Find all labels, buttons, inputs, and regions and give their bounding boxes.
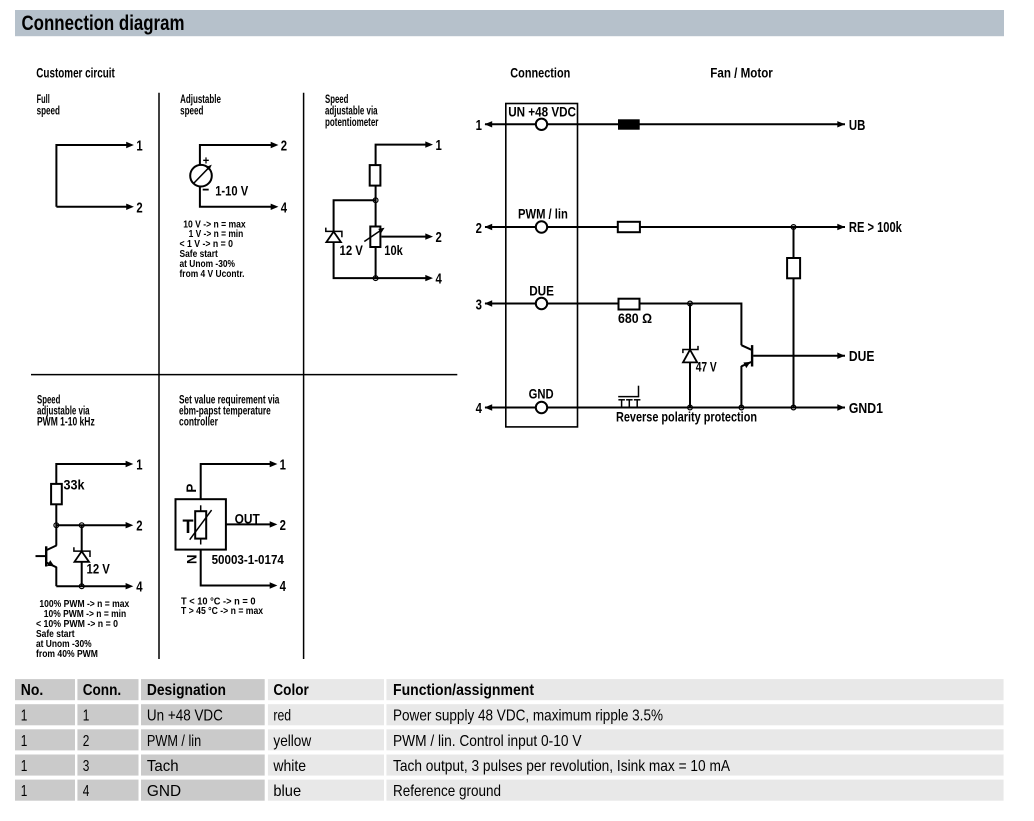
svg-text:red: red bbox=[273, 708, 291, 725]
svg-text:3: 3 bbox=[476, 297, 482, 314]
svg-text:12 V: 12 V bbox=[87, 561, 111, 577]
wire full speed pin2 bbox=[56, 206, 127, 208]
minus sign bbox=[203, 189, 209, 191]
junction ring top bbox=[373, 198, 378, 203]
resistor RE vertical bbox=[787, 258, 800, 278]
resistor 33k bbox=[51, 484, 62, 504]
svg-text:4: 4 bbox=[436, 271, 443, 288]
divider line vertical 2 bbox=[303, 93, 305, 659]
mosfet gate bar bbox=[618, 396, 639, 398]
wire pin4 GND bbox=[485, 407, 845, 409]
junction ring zener top bbox=[688, 301, 693, 306]
potentiometer body bbox=[370, 227, 380, 248]
svg-text:speed: speed bbox=[37, 106, 60, 118]
svg-text:4: 4 bbox=[476, 400, 483, 417]
mosfet stem 1 bbox=[621, 400, 623, 408]
arrowhead GND1 bbox=[837, 404, 845, 410]
wire OUT to pin2 bbox=[226, 523, 271, 525]
svg-text:50003-1-0174: 50003-1-0174 bbox=[212, 552, 285, 567]
zener diode 12V triangle bbox=[326, 232, 341, 243]
junction ring right bbox=[79, 523, 84, 528]
mosfet pad 3 bbox=[634, 399, 641, 401]
wire 33k to junction bbox=[55, 504, 57, 545]
table row 3 text bbox=[21, 758, 730, 775]
svg-text:Customer circuit: Customer circuit bbox=[36, 64, 115, 80]
svg-text:1: 1 bbox=[21, 733, 28, 750]
svg-text:Connection: Connection bbox=[510, 64, 570, 80]
arrowhead pin4 bbox=[126, 583, 134, 589]
table row 2 background bbox=[15, 729, 1004, 750]
svg-text:Tach: Tach bbox=[147, 758, 179, 775]
arrowhead pin4 left bbox=[485, 404, 493, 410]
thermistor body bbox=[195, 511, 206, 538]
svg-text:yellow: yellow bbox=[273, 733, 311, 750]
transistor collector diagonal bbox=[47, 545, 57, 550]
arrowhead pin4 bbox=[271, 204, 279, 210]
wire wiper to pin2 bbox=[382, 236, 427, 238]
svg-text:10k: 10k bbox=[384, 242, 403, 258]
junction ring GND emitter bbox=[739, 405, 744, 410]
divider line horizontal bbox=[31, 374, 457, 376]
svg-text:Fan / Motor: Fan / Motor bbox=[710, 64, 773, 80]
svg-text:2: 2 bbox=[476, 220, 482, 237]
svg-text:DUE: DUE bbox=[849, 348, 875, 365]
arrowhead pin2 bbox=[126, 522, 134, 528]
svg-text:Full: Full bbox=[37, 94, 50, 106]
svg-text:33k: 33k bbox=[64, 477, 85, 493]
junction ring GND resistor bbox=[791, 405, 796, 410]
table row 4 background bbox=[15, 780, 1004, 801]
wire source bottom to pin4 bbox=[200, 186, 272, 206]
wire zener 47V vertical top bbox=[689, 304, 691, 350]
mosfet pad 1 bbox=[618, 399, 625, 401]
svg-text:Reverse polarity protection: Reverse polarity protection bbox=[616, 409, 757, 425]
svg-text:PWM / lin. Control input 0-10: PWM / lin. Control input 0-10 V bbox=[393, 733, 582, 750]
junction ring bottom bbox=[373, 276, 378, 281]
arrowhead UB bbox=[837, 121, 845, 127]
wire controller top to pin1 bbox=[201, 464, 271, 499]
svg-text:RE > 100k: RE > 100k bbox=[849, 219, 902, 236]
arrowhead pin2 bbox=[271, 142, 279, 148]
svg-text:blue: blue bbox=[273, 783, 301, 800]
svg-text:2: 2 bbox=[136, 518, 142, 535]
svg-text:4: 4 bbox=[83, 783, 90, 800]
zener diode 47V triangle bbox=[683, 350, 697, 363]
svg-text:speed: speed bbox=[180, 106, 203, 118]
note adjustable speed bbox=[180, 219, 247, 279]
transistor top diagonal bbox=[741, 345, 751, 350]
svg-text:1-10 V: 1-10 V bbox=[215, 183, 249, 199]
terminal circle pin1 bbox=[536, 119, 547, 130]
wire emitter down bbox=[55, 567, 57, 586]
wire source top to pin2 bbox=[200, 145, 272, 165]
zener diode 12V bar bbox=[326, 228, 342, 238]
svg-text:T: T bbox=[183, 517, 194, 538]
arrowhead pin3 left bbox=[485, 300, 493, 306]
arrowhead pin2 bbox=[270, 521, 278, 527]
svg-text:1: 1 bbox=[476, 117, 482, 134]
svg-text:680 Ω: 680 Ω bbox=[618, 310, 652, 326]
svg-text:PWM 1-10 kHz: PWM 1-10 kHz bbox=[37, 417, 95, 429]
arrowhead pin2 left bbox=[485, 224, 493, 230]
wire pin4 bbox=[56, 585, 127, 587]
terminal circle pin2 bbox=[536, 221, 547, 232]
svg-text:Color: Color bbox=[273, 682, 308, 699]
wire pin2 bbox=[56, 524, 127, 526]
arrowhead pin4 bbox=[270, 582, 278, 588]
table row 3 background bbox=[15, 755, 1004, 776]
terminal circle pin3 bbox=[536, 298, 547, 309]
svg-text:Conn.: Conn. bbox=[83, 682, 122, 699]
wire pin1 left bbox=[485, 123, 845, 125]
wire 33k top to pin1 bbox=[56, 464, 127, 484]
svg-text:2: 2 bbox=[281, 137, 287, 154]
note temperature bbox=[181, 596, 263, 617]
svg-text:Tach output, 3 pulses per revo: Tach output, 3 pulses per revolution, Is… bbox=[393, 758, 730, 775]
svg-text:3: 3 bbox=[83, 758, 90, 775]
wire zener 47V vertical bottom bbox=[689, 362, 691, 407]
arrowhead RE bbox=[837, 224, 845, 230]
svg-text:2: 2 bbox=[136, 199, 142, 216]
table header text bbox=[21, 682, 535, 699]
junction ring RE bbox=[791, 225, 796, 230]
svg-text:controller: controller bbox=[179, 417, 218, 429]
svg-text:1: 1 bbox=[83, 708, 90, 725]
table row 1 text bbox=[21, 708, 663, 725]
transistor base stub bbox=[36, 555, 46, 557]
svg-text:T > 45 °C -> n = max: T > 45 °C -> n = max bbox=[181, 606, 263, 617]
transistor emitter arrowhead bbox=[47, 560, 54, 566]
wire left branch bbox=[334, 200, 376, 231]
svg-text:1: 1 bbox=[21, 758, 28, 775]
arrowhead pin4 bbox=[425, 275, 433, 281]
label Speed adjustable via potentiometer bbox=[325, 94, 379, 129]
svg-text:Adjustable: Adjustable bbox=[180, 94, 221, 106]
svg-text:2: 2 bbox=[436, 229, 442, 246]
svg-text:Reference ground: Reference ground bbox=[393, 783, 501, 800]
wire RE resistor vertical bbox=[793, 227, 795, 408]
wire controller bottom to pin4 bbox=[201, 550, 271, 586]
wire full speed pin1 bbox=[56, 145, 127, 207]
svg-text:from 40% PWM: from 40% PWM bbox=[36, 649, 98, 660]
svg-text:from 4 V Ucontr.: from 4 V Ucontr. bbox=[180, 269, 245, 280]
junction ring left bbox=[54, 523, 59, 528]
svg-text:Speed: Speed bbox=[37, 394, 60, 406]
svg-text:P: P bbox=[183, 484, 199, 493]
svg-text:Un +48 VDC: Un +48 VDC bbox=[147, 708, 223, 725]
wire zener to bottom bbox=[81, 562, 83, 586]
arrowhead pin2 bbox=[425, 233, 433, 239]
transistor emitter diagonal bbox=[47, 563, 57, 568]
label Full speed bbox=[37, 94, 60, 118]
resistor upper bbox=[370, 165, 381, 186]
svg-text:Function/assignment: Function/assignment bbox=[393, 682, 535, 699]
potentiometer wiper arrow bbox=[364, 231, 380, 242]
arrowhead pin1 bbox=[126, 461, 134, 467]
mosfet gate lead bbox=[638, 386, 640, 397]
voltage source variable arrow bbox=[194, 168, 209, 183]
svg-text:white: white bbox=[273, 758, 307, 775]
svg-text:Set value requirement via: Set value requirement via bbox=[179, 394, 280, 406]
svg-text:N: N bbox=[184, 555, 200, 565]
svg-text:potentiometer: potentiometer bbox=[325, 117, 379, 129]
wire emitter down bbox=[740, 366, 742, 408]
note PWM bbox=[36, 599, 130, 660]
wire zener to bottom bbox=[334, 242, 427, 278]
svg-text:12 V: 12 V bbox=[340, 242, 364, 258]
transistor bottom diagonal bbox=[741, 362, 751, 366]
svg-text:UB: UB bbox=[849, 117, 866, 134]
wire resistor to junction bbox=[375, 186, 377, 227]
connection box bbox=[506, 104, 578, 427]
svg-text:GND: GND bbox=[147, 783, 181, 800]
arrowhead pin2 bbox=[126, 204, 134, 210]
svg-text:GND1: GND1 bbox=[849, 400, 883, 417]
arrowhead pin1 bbox=[126, 142, 134, 148]
svg-text:Speed: Speed bbox=[325, 94, 348, 106]
terminal circle pin4 bbox=[536, 402, 547, 413]
table row 1 background bbox=[15, 704, 1004, 725]
mosfet pad 2 bbox=[626, 399, 633, 401]
zener diode 12V bar bbox=[74, 547, 90, 557]
resistor pin2 bbox=[618, 222, 640, 232]
svg-text:No.: No. bbox=[21, 682, 44, 699]
wire pin2 bbox=[485, 226, 845, 228]
svg-text:+: + bbox=[203, 156, 210, 168]
svg-text:2: 2 bbox=[280, 517, 286, 534]
title bar bbox=[15, 10, 1004, 36]
thermistor lead bottom bbox=[200, 539, 202, 545]
transistor bar bbox=[45, 546, 47, 566]
divider line vertical 1 bbox=[158, 93, 160, 659]
thermistor diagonal bbox=[190, 510, 212, 540]
thermistor lead top bbox=[200, 505, 202, 511]
svg-text:1: 1 bbox=[136, 457, 142, 474]
resistor 680 ohm bbox=[619, 299, 640, 310]
svg-text:4: 4 bbox=[281, 199, 288, 216]
svg-text:DUE: DUE bbox=[529, 282, 554, 298]
fuse (ferrite) black bbox=[618, 119, 640, 129]
svg-text:GND: GND bbox=[529, 386, 554, 402]
svg-text:1: 1 bbox=[21, 708, 28, 725]
table row 4 text bbox=[21, 783, 501, 800]
temperature controller box U1 bbox=[176, 499, 226, 549]
svg-text:1: 1 bbox=[21, 783, 28, 800]
svg-text:1: 1 bbox=[436, 137, 442, 154]
transistor arrowhead bbox=[743, 362, 750, 368]
svg-text:PWM / lin: PWM / lin bbox=[518, 205, 568, 221]
table header row background bbox=[15, 679, 1004, 700]
mosfet stem 2 bbox=[628, 400, 630, 408]
svg-text:Power supply 48 VDC, maximum r: Power supply 48 VDC, maximum ripple 3.5% bbox=[393, 708, 663, 725]
wire pin3 bbox=[485, 304, 741, 346]
svg-text:Connection diagram: Connection diagram bbox=[22, 12, 185, 35]
svg-text:adjustable via: adjustable via bbox=[325, 106, 378, 118]
zener branch wire bbox=[81, 525, 83, 551]
arrowhead pin1 left bbox=[485, 121, 493, 127]
svg-text:4: 4 bbox=[136, 579, 143, 596]
label Set value requirement via ebm-papst temperature controller bbox=[179, 394, 280, 428]
wire pot top to pin1 bbox=[376, 145, 427, 166]
arrowhead DUE bbox=[837, 353, 845, 359]
table row 2 text bbox=[21, 733, 582, 750]
wire pot bottom bbox=[375, 247, 377, 278]
mosfet stem 3 bbox=[636, 400, 638, 408]
label Speed adjustable via PWM 1-10 kHz bbox=[37, 394, 95, 428]
voltage source circle bbox=[190, 165, 212, 187]
svg-text:1: 1 bbox=[136, 137, 142, 154]
svg-text:47 V: 47 V bbox=[696, 359, 717, 375]
zener diode 12V triangle bbox=[75, 551, 90, 562]
junction ring GND zener bbox=[688, 405, 693, 410]
svg-text:UN +48 VDC: UN +48 VDC bbox=[508, 104, 576, 120]
label Adjustable speed bbox=[180, 94, 221, 118]
svg-text:Designation: Designation bbox=[147, 682, 226, 699]
svg-text:4: 4 bbox=[280, 578, 287, 595]
svg-text:ebm-papst temperature: ebm-papst temperature bbox=[179, 406, 271, 418]
svg-text:1: 1 bbox=[280, 457, 286, 474]
arrowhead pin1 bbox=[270, 461, 278, 467]
arrowhead pin1 bbox=[425, 141, 433, 147]
zener diode 47V bar bbox=[683, 346, 698, 353]
junction ring bottom bbox=[79, 584, 84, 589]
svg-text:PWM / lin: PWM / lin bbox=[147, 733, 201, 750]
transistor bar bbox=[751, 345, 753, 366]
svg-text:adjustable via: adjustable via bbox=[37, 406, 90, 418]
svg-text:2: 2 bbox=[83, 733, 90, 750]
wire DUE output bbox=[753, 355, 845, 357]
